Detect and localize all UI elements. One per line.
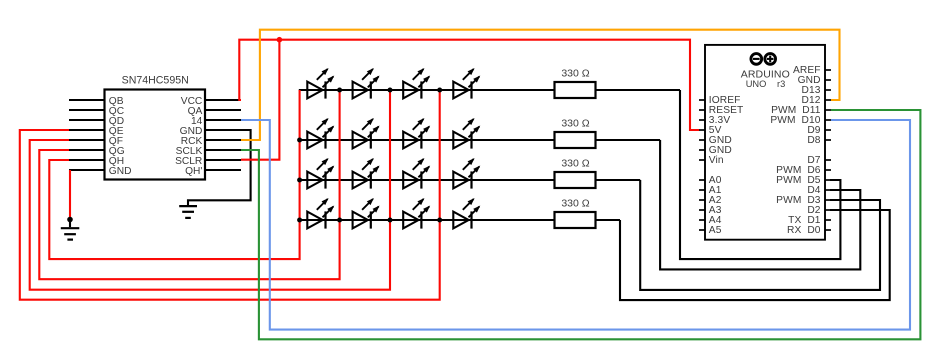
svg-text:330 Ω: 330 Ω (561, 68, 589, 80)
svg-text:330 Ω: 330 Ω (561, 198, 589, 210)
svg-text:330 Ω: 330 Ω (561, 118, 589, 130)
svg-text:330 Ω: 330 Ω (561, 158, 589, 170)
svg-text:UNO: UNO (746, 79, 767, 89)
svg-text:Vin: Vin (709, 155, 724, 166)
svg-text:RX D0: RX D0 (787, 225, 821, 236)
svg-text:QH': QH' (185, 166, 202, 177)
svg-text:D8: D8 (807, 135, 820, 146)
svg-text:SN74HC595N: SN74HC595N (122, 74, 189, 86)
svg-text:r3: r3 (777, 79, 785, 89)
svg-text:A5: A5 (709, 225, 722, 236)
svg-text:GND: GND (109, 166, 132, 177)
